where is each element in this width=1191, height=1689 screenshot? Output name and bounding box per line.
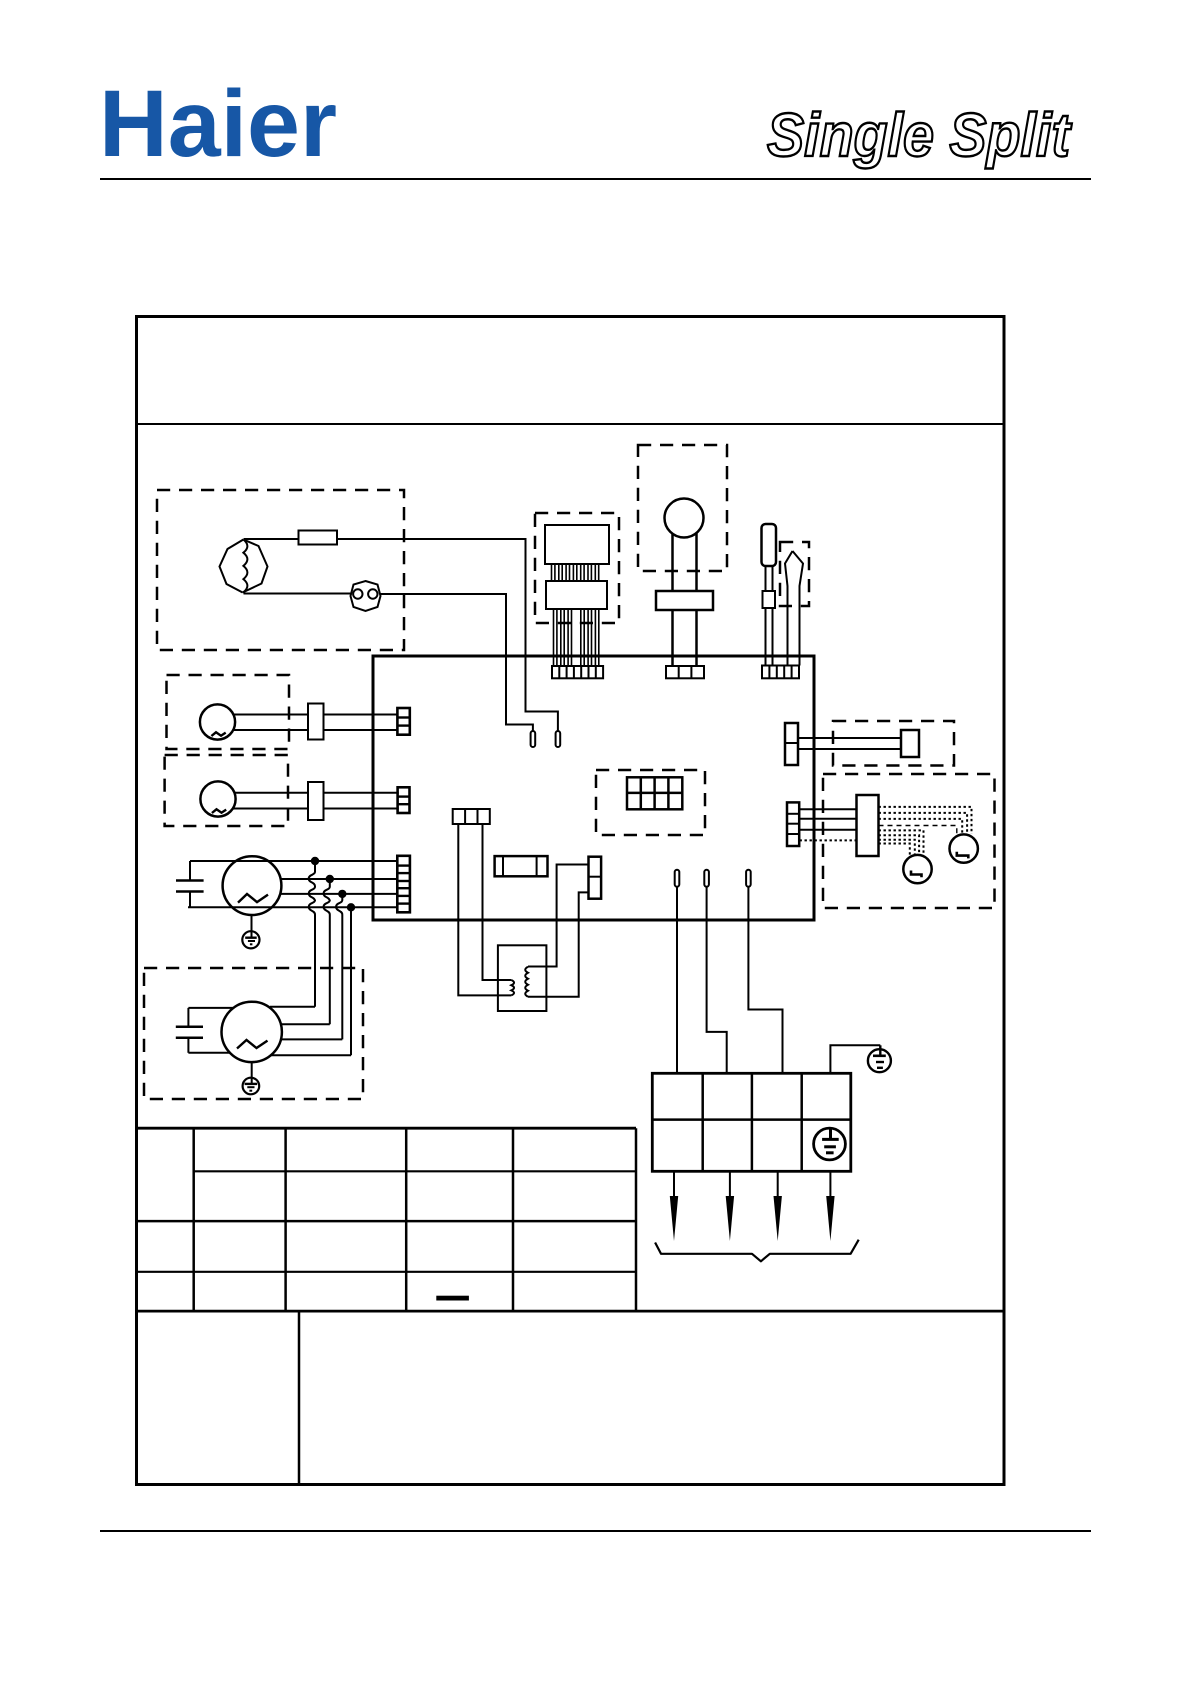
dotted bundle upper (879, 807, 972, 836)
wire transformer primary a (458, 824, 511, 995)
wire tap3 into motor alt (282, 1038, 343, 1040)
dotted bundle lower (879, 830, 924, 856)
wire cap top to motor alt (188, 1007, 233, 1009)
transformer T1 (498, 945, 547, 1011)
wires plug1 to pcb (324, 715, 398, 731)
wire compressor line4 with hops (188, 906, 397, 908)
dashed box defrost sensor (780, 542, 809, 606)
OLP switch 1 (903, 855, 931, 883)
diagram outer border (137, 317, 1005, 1485)
fuse F1 (299, 531, 338, 545)
compressor motor symbol (220, 540, 268, 593)
pcb pin capsule 1 (531, 731, 536, 747)
dashed box display connector (535, 513, 619, 623)
pcb header CN-4way (785, 723, 798, 765)
wire compressor line3 with hops (280, 893, 397, 895)
wire compressor line1 (190, 860, 397, 862)
main PCB outline (373, 656, 814, 920)
4-way valve coil (901, 730, 919, 757)
wire earth to terminal (830, 1045, 880, 1073)
footer rule (100, 1530, 1091, 1532)
wire N to terminal (707, 887, 727, 1074)
pcb pin S (746, 870, 751, 887)
junction node B (326, 875, 334, 883)
terminal block TB1 (652, 1073, 851, 1171)
arrow lead 4 (826, 1171, 834, 1241)
wire tap1 into motor alt (270, 1006, 315, 1008)
arrow lead 1 (670, 1171, 678, 1241)
display connector short pins (552, 564, 599, 581)
wire U2 to transformer secondary bottom (528, 892, 589, 996)
plug motor1 (308, 704, 324, 740)
dashed box EEPROM (596, 770, 705, 835)
dashed box fan motor down (165, 755, 288, 826)
overload protector (351, 581, 381, 611)
pcb header CN-olp (787, 802, 799, 846)
arrow lead 3 (774, 1171, 782, 1241)
wire compressor top to fuse (244, 538, 300, 540)
tap wire 2 down (324, 879, 330, 1024)
tap wire 1 down (309, 861, 315, 1007)
OLP terminal strip (857, 795, 879, 856)
fan motor up M1 (200, 704, 235, 739)
pcb header CN-sensors (762, 666, 799, 679)
svg-text:Single Split: Single Split (767, 101, 1072, 169)
pcb header CN-power 8pin (397, 856, 410, 913)
pcb header CN-display (552, 666, 603, 678)
display connector mid block (546, 581, 607, 609)
wire L to terminal (676, 887, 678, 1074)
wire compressor bottom to protector (244, 593, 351, 595)
wires to 4-way valve coil (798, 738, 901, 749)
wires motor2 to plug (234, 793, 309, 809)
dashed box ambient sensor (638, 445, 727, 571)
wire cap bottom to motor alt (188, 1052, 230, 1054)
wire U2 to transformer secondary top (528, 865, 589, 967)
run capacitor C2 (176, 1008, 203, 1053)
OLP switch 2 (950, 834, 978, 862)
compressor motor alt (222, 1002, 282, 1062)
pcb header CN-transformer (453, 809, 490, 824)
fan motor down M2 (200, 781, 235, 816)
relay RY1 (495, 856, 548, 876)
pcb pin N (704, 870, 709, 887)
wires plug2 to pcb (324, 793, 399, 809)
junction node A (311, 857, 319, 865)
pcb header CN-ambient (666, 666, 704, 678)
tap wire 4 down (350, 907, 352, 1055)
display connector top block (545, 525, 609, 564)
wires to OLP terminal (799, 809, 856, 829)
wire tap4 into motor alt (271, 1054, 351, 1056)
ground compressor main (242, 915, 259, 948)
ambient sensor bulb (656, 499, 713, 667)
plug motor2 (308, 782, 324, 820)
wire tap2 into motor alt (281, 1023, 330, 1025)
run capacitor C1 (176, 861, 204, 907)
compressor motor main (223, 856, 282, 915)
pipe sensor capsule (762, 524, 777, 666)
junction node C (338, 890, 346, 898)
dotted wire to OLP terminal (800, 839, 857, 841)
header rule (100, 178, 1091, 180)
power module U2 (589, 857, 602, 899)
pcb header CN-fan1 (397, 708, 409, 735)
pcb pin capsule 2 (556, 731, 561, 747)
pcb header CN-fan2 (398, 787, 410, 813)
Single Split outline title (767, 101, 1072, 169)
title band line (137, 423, 1005, 425)
junction node D (347, 903, 355, 911)
ground compressor alt (243, 1062, 260, 1094)
pcb pin L (675, 870, 680, 887)
dashed box OLP sensors (823, 774, 995, 908)
dashed box 4-way valve (833, 721, 954, 766)
svg-text:Haier: Haier (99, 71, 337, 177)
terminal earth symbol (814, 1128, 846, 1160)
wire S to terminal (748, 887, 782, 1074)
arrow lead 2 (726, 1171, 734, 1241)
display connector long pins (554, 609, 599, 666)
brace power supply (655, 1240, 859, 1262)
defrost sensor probe (785, 551, 803, 666)
ground lug right (868, 1045, 891, 1072)
wires motor1 to plug (233, 715, 308, 731)
wire transformer primary b (483, 824, 512, 980)
notes box divider (298, 1311, 301, 1485)
spec table (137, 1128, 1005, 1311)
dashed box fan motor up (167, 675, 290, 749)
wire compressor line2 with hop (281, 878, 398, 880)
wire protector to PCB pin 1 (381, 594, 533, 731)
dashed box compressor unit (157, 490, 404, 650)
table dash entry (436, 1296, 469, 1301)
tap wire 3 down (336, 894, 342, 1040)
wire fuse to PCB pin 2 (337, 539, 558, 731)
EEPROM IC grid (627, 777, 682, 809)
Haier logo (99, 71, 337, 177)
dashed box compressor alt (144, 968, 363, 1099)
